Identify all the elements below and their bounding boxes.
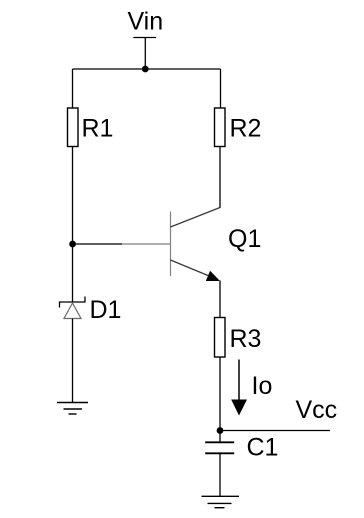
ground right — [202, 496, 240, 507]
svg-text:C1: C1 — [247, 434, 279, 462]
wire base node to D1 — [72, 244, 74, 302]
svg-text:Vin: Vin — [127, 8, 163, 36]
resistor R3 — [215, 318, 226, 358]
label R1 — [82, 114, 114, 142]
svg-text:D1: D1 — [90, 296, 122, 324]
label Vcc — [296, 396, 338, 424]
wire left rail mid — [72, 147, 74, 245]
svg-text:Vcc: Vcc — [296, 396, 338, 424]
terminal Vin — [133, 37, 156, 39]
resistor R1 — [68, 108, 79, 147]
wire C1 to ground — [219, 454, 221, 496]
wire base — [73, 243, 122, 245]
label Vin — [127, 8, 163, 36]
label R3 — [230, 325, 262, 353]
capacitor C1 — [205, 431, 234, 454]
transistor Q1 — [122, 208, 220, 282]
zener diode D1 — [60, 297, 86, 319]
svg-text:Io: Io — [252, 372, 273, 400]
junction Vcc node — [217, 427, 224, 434]
wire anode to ground — [72, 319, 74, 403]
junction base node — [69, 241, 76, 248]
wire collector — [219, 147, 221, 208]
svg-text:R1: R1 — [82, 114, 114, 142]
svg-text:Q1: Q1 — [228, 225, 261, 253]
svg-text:R2: R2 — [230, 114, 262, 142]
wire R3 to Vcc node — [219, 357, 221, 431]
label Io — [252, 372, 273, 400]
label R2 — [230, 114, 262, 142]
label D1 — [90, 296, 122, 324]
wire emitter — [219, 281, 221, 318]
ground left — [57, 403, 88, 415]
resistor R2 — [215, 108, 226, 147]
wire Vin stub — [144, 38, 146, 70]
label C1 — [247, 434, 279, 462]
current arrow Io — [231, 360, 247, 416]
label Q1 — [228, 225, 261, 253]
wire Vcc rail — [220, 430, 330, 432]
junction Vin node — [142, 66, 149, 73]
wire R2 top — [220, 69, 222, 109]
svg-text:R3: R3 — [230, 325, 262, 353]
wire left rail upper — [72, 69, 74, 109]
wire top rail — [73, 68, 221, 70]
